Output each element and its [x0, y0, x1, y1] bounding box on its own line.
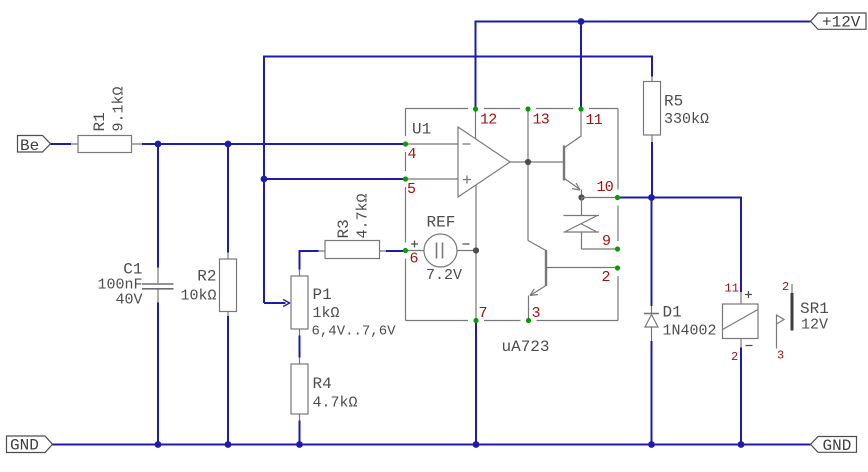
svg-text:7.2V: 7.2V	[426, 267, 462, 284]
junction op-amp output	[525, 159, 531, 165]
svg-text:11: 11	[725, 282, 739, 296]
netport flag Be	[18, 136, 51, 156]
svg-text:6,4V..7,6V: 6,4V..7,6V	[312, 324, 397, 340]
relay contact SR1	[777, 284, 793, 349]
resistor R2	[220, 253, 237, 317]
svg-text:12V: 12V	[801, 317, 828, 334]
svg-text:9.1kΩ: 9.1kΩ	[111, 86, 128, 131]
wire C1 bottom to GND rail	[157, 303, 159, 445]
pin dot 6	[403, 248, 408, 253]
capacitor C1	[142, 268, 174, 303]
junction R1 net / C1	[155, 141, 162, 148]
svg-text:2: 2	[602, 269, 610, 286]
pin dot 3	[526, 318, 531, 323]
label SR1 value 12V	[800, 300, 829, 334]
junction GND / C1	[155, 441, 162, 448]
wire R4 bottom to GND rail	[299, 421, 301, 445]
wire branch to op-amp pin 5	[264, 178, 405, 180]
junction node A at pin5 branch	[261, 176, 268, 183]
pin dot 10	[615, 195, 620, 200]
IC U1 boundary box	[406, 109, 619, 321]
wire Be flag to R1	[51, 143, 72, 145]
svg-text:12: 12	[480, 112, 496, 129]
pin dot 11	[578, 106, 583, 111]
wire P1 wiper	[264, 302, 286, 304]
svg-text:7: 7	[479, 305, 487, 322]
wire pin 13 to op-amp output	[527, 109, 529, 241]
wire op-amp output to Q1 base	[510, 161, 563, 163]
resistor R4	[291, 358, 308, 421]
potentiometer P1	[291, 270, 308, 336]
transistor Q1 output	[564, 109, 582, 198]
pin dot 5	[403, 176, 408, 181]
svg-text:9: 9	[602, 233, 610, 250]
resistor R3	[319, 241, 387, 259]
svg-text:P1: P1	[313, 286, 332, 304]
resistor R5	[644, 77, 661, 143]
svg-text:2: 2	[782, 280, 789, 294]
label C1 value 100nF 40V	[97, 261, 142, 309]
label R2 value 10k	[180, 268, 216, 305]
svg-text:GND: GND	[823, 437, 852, 455]
pin dot 7	[473, 318, 478, 323]
junction GND / pin 7	[473, 441, 480, 448]
wire R3 right to pin 6	[386, 250, 405, 252]
wire C1 top	[157, 144, 159, 268]
svg-text:4.7kΩ: 4.7kΩ	[313, 395, 358, 412]
junction GND / D1	[648, 441, 655, 448]
junction REF minus / V- rail	[473, 247, 479, 253]
svg-text:4.7kΩ: 4.7kΩ	[355, 193, 372, 238]
pin dot 12	[473, 106, 478, 111]
svg-text:1kΩ: 1kΩ	[313, 305, 340, 322]
wire R2 bottom to GND rail	[227, 316, 229, 445]
wire GND bottom rail	[53, 444, 811, 446]
svg-text:R4: R4	[313, 375, 332, 393]
pin dot 13	[525, 106, 530, 111]
label R3 value 4.7k	[335, 193, 372, 238]
ground flag GND right	[811, 437, 857, 456]
wire D1 top	[651, 198, 653, 307]
label R4 value 4.7k	[313, 375, 358, 412]
junction GND / R4	[296, 441, 303, 448]
wire relay coil bottom to GND rail	[740, 348, 742, 445]
svg-text:10kΩ: 10kΩ	[180, 288, 216, 305]
wire top rail branch to pin 11	[580, 22, 582, 108]
pin dot 9	[615, 246, 620, 251]
wire pin 7 to GND rail	[475, 323, 477, 445]
svg-text:11: 11	[586, 112, 603, 129]
label R1 value 9.1k	[91, 86, 128, 131]
relay coil SR1	[723, 291, 759, 348]
svg-text:1N4002: 1N4002	[663, 323, 717, 340]
svg-text:6: 6	[410, 251, 419, 268]
label R5 value 330k	[664, 93, 709, 129]
wire op-amp bottom to pin 7	[475, 186, 477, 321]
zener diode internal	[564, 198, 616, 250]
wire R1 to op-amp pin 4	[142, 143, 405, 145]
svg-text:+12V: +12V	[822, 14, 861, 32]
label P1 value 1k 6,4V..7,6V	[312, 286, 397, 340]
svg-text:uA723: uA723	[502, 338, 550, 356]
wire +12V top rail to pin 12	[476, 22, 811, 110]
wire R3 left to P1 top	[300, 251, 319, 270]
svg-text:2: 2	[731, 350, 738, 364]
svg-text:R3: R3	[335, 219, 353, 238]
resistor R1	[71, 136, 142, 153]
svg-text:4: 4	[408, 146, 417, 163]
pin dot 4	[403, 141, 408, 146]
svg-text:U1: U1	[412, 121, 431, 139]
svg-text:3: 3	[532, 305, 541, 322]
svg-text:13: 13	[533, 112, 550, 129]
wire second rail from node A to R5 top	[264, 57, 652, 304]
junction GND / R2	[225, 441, 232, 448]
wire pin 12 to op-amp top	[475, 109, 477, 139]
op-amp U1 error amplifier	[406, 127, 511, 197]
svg-text:40V: 40V	[115, 292, 142, 309]
wire pin 10 to relay coil	[620, 198, 742, 293]
svg-text:10: 10	[597, 179, 614, 196]
svg-text:5: 5	[407, 181, 416, 198]
label D1 value 1N4002	[663, 304, 717, 340]
arrowhead P1 wiper	[283, 300, 289, 307]
svg-text:SR1: SR1	[800, 300, 829, 318]
transistor Q2 current limit	[528, 241, 615, 319]
wire P1 bottom to R4 top	[299, 336, 301, 358]
wire D1 bottom to GND rail	[651, 341, 653, 445]
junction Q1 emitter / zener / pin 10	[578, 194, 584, 200]
diode D1	[644, 306, 659, 341]
power flag +12V	[811, 13, 867, 32]
wire Q1 emitter to pin 10	[582, 197, 616, 199]
wire R5 bottom to node 10	[651, 142, 653, 198]
junction GND / relay coil	[738, 441, 745, 448]
svg-text:R2: R2	[197, 268, 216, 286]
wire R2 top	[227, 144, 229, 253]
svg-text:Be: Be	[20, 137, 39, 155]
svg-text:3: 3	[777, 349, 784, 363]
svg-text:REF: REF	[427, 214, 456, 232]
pin dot 2	[615, 265, 620, 270]
junction R1 net / R2	[225, 141, 232, 148]
svg-text:D1: D1	[663, 304, 682, 322]
svg-text:330kΩ: 330kΩ	[664, 111, 709, 128]
junction top rail / pin 11	[578, 18, 585, 25]
junction node 10 / D1 / R5	[648, 194, 655, 201]
svg-text:R1: R1	[91, 112, 109, 131]
svg-text:GND: GND	[10, 437, 39, 455]
voltage reference REF 7.2V	[406, 234, 477, 267]
ground flag GND left	[7, 436, 53, 455]
svg-text:R5: R5	[664, 93, 683, 111]
